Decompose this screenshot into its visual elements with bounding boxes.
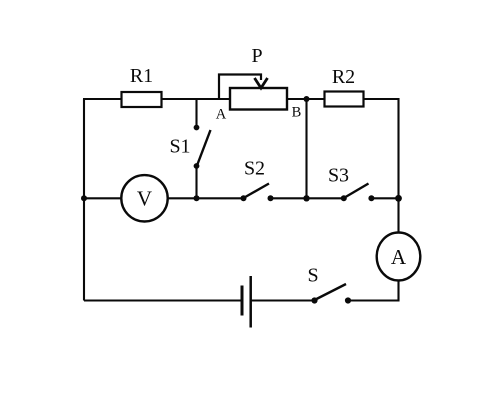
svg-text:V: V — [137, 187, 152, 211]
resistor R1 — [122, 92, 162, 107]
wire right vertical upper — [397, 98, 399, 233]
wire R1 to P — [162, 98, 231, 100]
switch S2 left contact — [241, 195, 247, 201]
voltmeter V — [121, 175, 167, 221]
svg-text:S2: S2 — [244, 158, 265, 180]
switch S1 top contact — [194, 125, 200, 131]
wire bottom left — [84, 299, 241, 301]
switch S2 right contact — [268, 195, 274, 201]
resistor R2 — [325, 92, 364, 107]
wire bottom right — [348, 299, 400, 301]
potentiometer P wiper arrowhead — [255, 78, 268, 88]
svg-text:B: B — [292, 105, 302, 121]
svg-text:S3: S3 — [328, 165, 349, 187]
wire voltmeter to S2 — [168, 197, 244, 199]
potentiometer P wiper arm — [219, 75, 261, 101]
node left-mid junction dot — [81, 195, 87, 201]
svg-text:R1: R1 — [130, 65, 153, 87]
node S1-mid junction dot — [194, 195, 200, 201]
switch S right contact — [345, 297, 351, 303]
battery negative plate (short) — [241, 286, 244, 316]
switch S3 right contact — [368, 195, 374, 201]
switch S1 bottom contact — [194, 163, 200, 169]
switch S lever — [315, 284, 347, 300]
svg-text:S1: S1 — [169, 136, 190, 158]
node B junction dot — [304, 96, 310, 102]
wire node B vertical — [305, 99, 307, 198]
wire right vertical lower — [397, 281, 399, 302]
node mid junction dot — [303, 195, 309, 201]
switch S left contact — [311, 297, 317, 303]
svg-text:S: S — [307, 265, 318, 287]
wire P to R2 — [287, 98, 325, 100]
battery positive plate (long) — [249, 276, 252, 328]
svg-text:A: A — [391, 245, 407, 269]
node right-mid junction dot — [395, 195, 402, 202]
wire middle left — [84, 197, 122, 199]
switch S2 lever — [244, 184, 270, 199]
wire R2 to right corner — [364, 98, 399, 100]
wire S3 to right vertical — [371, 197, 398, 199]
wire S2 to S3 — [271, 197, 344, 199]
wire left vertical — [83, 99, 85, 301]
svg-text:A: A — [216, 107, 227, 123]
ammeter A — [377, 233, 421, 281]
switch S3 lever — [344, 184, 369, 199]
svg-text:P: P — [251, 45, 262, 67]
wire S1 upper stub — [195, 99, 197, 128]
switch S1 lever — [197, 130, 211, 166]
svg-text:R2: R2 — [332, 66, 355, 88]
potentiometer P body — [230, 88, 287, 110]
wire battery to switch S — [252, 299, 315, 301]
wire S1 lower stub — [195, 166, 197, 198]
switch S3 left contact — [341, 195, 347, 201]
wire top left — [83, 98, 122, 100]
